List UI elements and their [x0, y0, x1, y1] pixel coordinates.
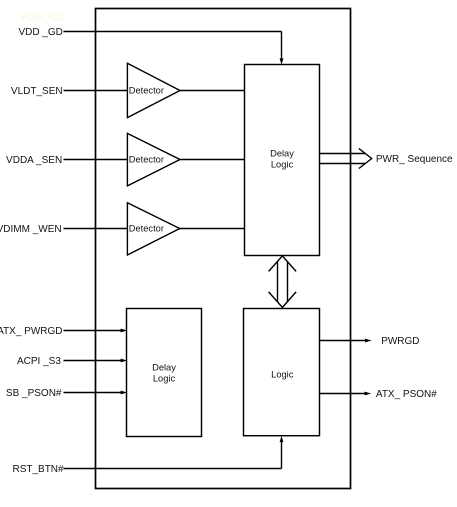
wire VDDA_SEN input — [64, 159, 128, 161]
wire RST_BTN# horizontal — [64, 468, 282, 470]
filled arrowhead ATX_PSON# — [365, 392, 372, 396]
wire detector U2 output — [180, 159, 245, 161]
svg-text:Logic: Logic — [271, 160, 294, 170]
svg-text:Logic: Logic — [271, 369, 294, 379]
block U4 Delay Logic (top) — [245, 65, 320, 256]
svg-text:Detector: Detector — [129, 223, 164, 233]
wire detector U1 output — [180, 90, 245, 92]
wire PWR_Sequence bus lower line — [320, 163, 366, 165]
svg-text:PWR_ Sequence: PWR_ Sequence — [376, 154, 453, 165]
wire VDD_GD horizontal — [64, 31, 282, 33]
block U6 Logic (bottom-right) — [244, 309, 320, 436]
filled arrowhead PWRGD — [365, 339, 372, 343]
wire PWR_Sequence bus upper line — [320, 153, 366, 155]
svg-text:VDD _GD: VDD _GD — [20, 13, 64, 24]
detector U1 (VLDT) triangle — [127, 63, 180, 117]
filled arrowhead ATX_PWRGD — [121, 329, 128, 333]
wire VLDT_SEN input — [64, 90, 128, 92]
filled arrowhead SB_PSON# — [121, 391, 128, 395]
svg-text:VDDA _SEN: VDDA _SEN — [6, 155, 62, 166]
filled arrowhead into top Delay Logic (VDD_GD) — [280, 58, 284, 64]
filled arrowhead ACPI_S3 — [121, 359, 128, 363]
wire detector U3 output — [180, 228, 245, 230]
svg-text:Delay: Delay — [270, 149, 294, 159]
wire ACPI_S3 input — [64, 360, 121, 362]
wire RST_BTN# vertical rise — [281, 442, 283, 469]
wire SB_PSON# input — [64, 392, 121, 394]
svg-text:VLDT_SEN: VLDT_SEN — [11, 86, 63, 97]
detector U2 (VDDA) triangle — [127, 133, 180, 186]
svg-text:ATX_ PSON#: ATX_ PSON# — [376, 389, 437, 400]
bidirectional arrow bottom head — [269, 292, 297, 308]
svg-text:Detector: Detector — [129, 155, 164, 165]
wire VDD_GD vertical drop — [281, 32, 283, 60]
svg-text:ATX_ PWRGD: ATX_ PWRGD — [0, 326, 63, 337]
bidirectional arrow top head — [269, 256, 297, 272]
svg-text:Delay: Delay — [152, 362, 176, 372]
detector U3 (VDIMM) triangle — [127, 203, 179, 255]
filled arrowhead RST_BTN# up into Logic — [280, 436, 284, 442]
svg-text:Logic: Logic — [153, 373, 176, 383]
svg-text:SB _PSON#: SB _PSON# — [6, 388, 62, 399]
svg-text:ACPI _S3: ACPI _S3 — [17, 356, 61, 367]
svg-text:PWRGD: PWRGD — [381, 336, 419, 347]
svg-text:Detector: Detector — [129, 86, 164, 96]
svg-text:VDD _GD: VDD _GD — [18, 27, 62, 38]
block U5 Delay Logic (bottom-left) — [127, 309, 202, 437]
wire PWRGD output — [320, 340, 366, 342]
outer IC boundary box — [96, 9, 351, 489]
wire ATX_PWRGD input — [64, 330, 121, 332]
wire ATX_PSON# output — [320, 393, 366, 395]
open arrowhead PWR_Sequence — [359, 149, 372, 169]
bidirectional open arrow shaft between Delay Logic and Logic — [277, 262, 279, 302]
svg-text:VDIMM _WEN: VDIMM _WEN — [0, 224, 62, 235]
svg-text:RST_BTN#: RST_BTN# — [12, 464, 64, 475]
wire VDIMM_WEN input — [64, 228, 128, 230]
